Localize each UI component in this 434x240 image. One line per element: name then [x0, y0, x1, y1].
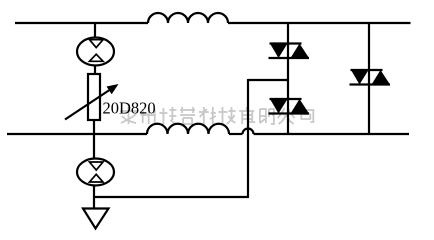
top wire (right segment): [228, 22, 411, 24]
inductor L1: [148, 13, 228, 23]
wire: top wire through D1, D2 to middle wire: [287, 22, 289, 134]
top wire (left segment, phase line): [15, 22, 148, 24]
watermark: [120, 107, 313, 124]
wire: varistor to middle wire: [93, 120, 95, 134]
wire: bottom return to ground node: [94, 196, 249, 198]
wire: tap between D1 and D2: [248, 79, 288, 81]
wire: vertical return: [247, 79, 249, 197]
gas discharge tube GDT2: [77, 159, 114, 186]
middle wire (center segment): [229, 133, 243, 135]
inductor L2: [147, 124, 229, 134]
TVS diode D1 (bidirectional): [269, 44, 310, 59]
wire: GDT2 to ground: [93, 186, 95, 210]
wire: middle wire to GDT2: [93, 134, 95, 159]
middle wire (left segment, neutral line): [7, 133, 147, 135]
middle wire (right segment): [254, 133, 410, 135]
wire: top wire through D3 to middle wire: [368, 22, 370, 134]
TVS diode D3 (bidirectional): [350, 70, 391, 85]
wire hop (no-connection crossover): [243, 129, 254, 134]
svg-text:20D820: 20D820: [103, 99, 156, 118]
varistor RV1 body: [88, 74, 100, 120]
gas discharge tube GDT1: [77, 38, 114, 66]
ground: [83, 209, 109, 229]
wire: top wire to GDT1: [94, 22, 96, 38]
wire: GDT1 to varistor RV1: [94, 66, 96, 75]
TVS diode D2 (bidirectional): [269, 99, 310, 114]
varistor RV1 arrow: [65, 89, 111, 120]
